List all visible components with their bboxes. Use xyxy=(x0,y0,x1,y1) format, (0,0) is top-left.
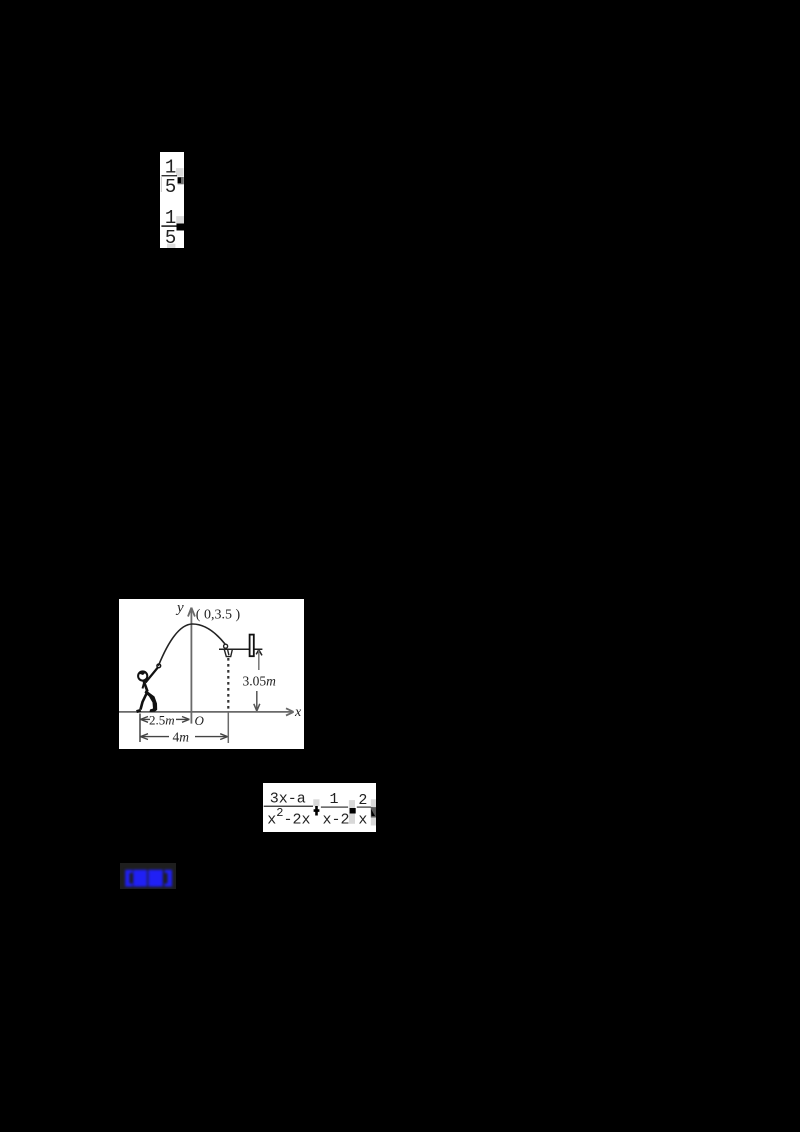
right bracket xyxy=(165,870,173,887)
ball in flight start xyxy=(157,664,161,668)
x-axis xyxy=(119,711,293,713)
frac bar 2 xyxy=(321,807,348,808)
head xyxy=(138,671,147,680)
x-axis arrowhead xyxy=(286,708,294,715)
svg-text:2.5m: 2.5m xyxy=(149,713,175,728)
left arm xyxy=(143,683,145,689)
rim line xyxy=(219,648,262,650)
y-axis arrowhead xyxy=(188,608,195,617)
dotted vertical line under basket xyxy=(227,658,229,711)
trajectory parabola xyxy=(158,624,225,666)
hair blob xyxy=(139,671,146,675)
fraction 1 dark artifact xyxy=(178,177,184,184)
figure: basketball shot trajectory diagram xyxy=(119,599,304,749)
glyph blob 1 xyxy=(133,870,147,887)
faint left line xyxy=(161,176,162,192)
svg-text:O: O xyxy=(195,713,205,728)
plus sign xyxy=(314,806,320,816)
arm up to ball xyxy=(146,668,158,683)
net basket xyxy=(224,650,232,657)
bottom light artifact xyxy=(167,244,175,248)
labels xyxy=(149,600,302,745)
frac bar 3 xyxy=(357,807,373,808)
vertical line below axis (4m right bound) xyxy=(227,712,229,743)
right leg with foot (filled) xyxy=(145,690,158,712)
frac bar 1 xyxy=(264,806,313,807)
svg-text:-2x: -2x xyxy=(284,812,311,829)
4m arrow xyxy=(141,734,149,740)
stick figure player xyxy=(137,664,161,712)
fraction 2 gray artifact light xyxy=(176,216,184,225)
svg-text:5: 5 xyxy=(165,176,176,198)
3.05m down arrow xyxy=(256,691,258,709)
svg-text:x: x xyxy=(294,705,302,720)
fraction 1 gray artifact light xyxy=(176,168,184,176)
y-axis xyxy=(190,608,192,724)
equation (3x-a)/(x^2-2x) + 1/(x-2) = 2/x xyxy=(263,783,376,832)
equals artifact gray xyxy=(349,800,355,824)
svg-text:( 0,3.5 ): ( 0,3.5 ) xyxy=(196,607,241,622)
torso xyxy=(144,681,148,692)
svg-text:2: 2 xyxy=(358,792,367,809)
svg-text:3.05m: 3.05m xyxy=(243,674,277,689)
fraction 2 bar xyxy=(161,225,177,227)
svg-text:y: y xyxy=(175,600,184,616)
glyph blob 2 xyxy=(148,870,163,887)
left foot xyxy=(137,710,141,711)
3.05m up arrow xyxy=(256,650,262,656)
backboard xyxy=(250,635,254,657)
equals sign xyxy=(350,808,356,814)
fraction image 1/5 over 1/5 (equation clip) xyxy=(160,152,184,248)
svg-text:x: x xyxy=(267,812,276,829)
ball at basket xyxy=(224,644,228,648)
plus artifact gray xyxy=(313,799,319,806)
left leg xyxy=(141,692,148,710)
svg-text:x: x xyxy=(358,812,367,829)
svg-text:x-2: x-2 xyxy=(323,812,350,829)
right artifacts xyxy=(371,799,376,807)
svg-text:3x-a: 3x-a xyxy=(270,791,306,808)
left measurement tick xyxy=(139,714,141,743)
fraction 2 black artifact xyxy=(177,224,185,231)
blue highlighted label box xyxy=(120,863,176,889)
left bracket xyxy=(125,870,132,887)
svg-text:1: 1 xyxy=(330,791,339,808)
svg-text:2: 2 xyxy=(276,806,283,820)
svg-text:4m: 4m xyxy=(173,730,190,745)
2.5m arrow xyxy=(141,717,149,723)
fraction 1 bar xyxy=(162,175,178,176)
